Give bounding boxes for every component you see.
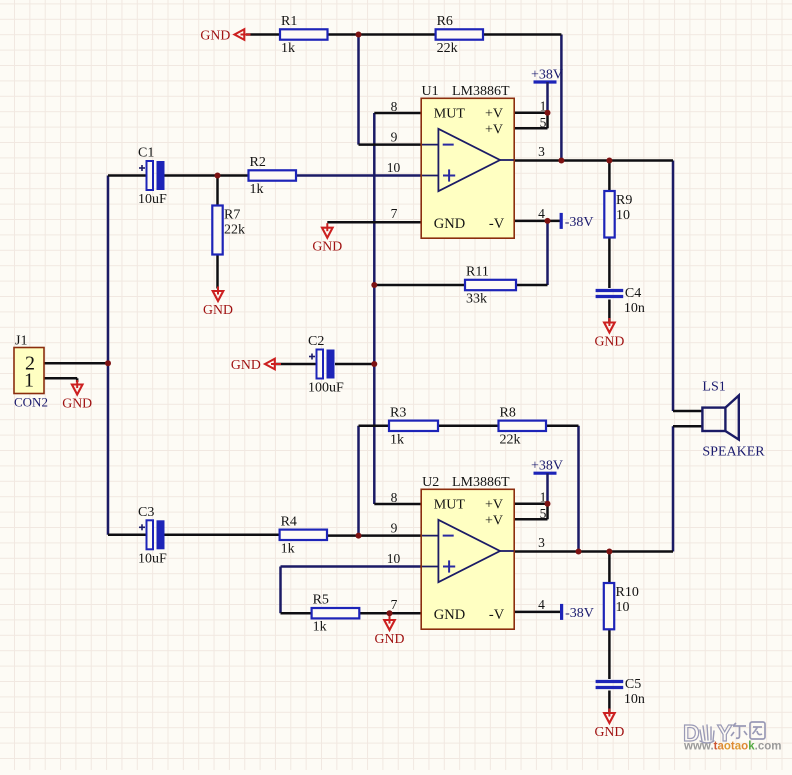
svg-text:10n: 10n [624, 692, 645, 707]
svg-text:5: 5 [540, 506, 547, 521]
svg-text:R1: R1 [281, 14, 297, 29]
svg-text:10uF: 10uF [138, 192, 167, 207]
svg-text:GND: GND [203, 302, 233, 317]
svg-text:7: 7 [391, 597, 398, 612]
svg-text:10: 10 [616, 600, 630, 615]
svg-text:4: 4 [538, 206, 545, 221]
svg-text:9: 9 [391, 130, 398, 145]
svg-text:R7: R7 [224, 208, 240, 223]
svg-text:LS1: LS1 [702, 380, 725, 395]
svg-text:7: 7 [391, 206, 398, 221]
svg-text:+V: +V [485, 498, 503, 513]
svg-text:www.taotaok.com: www.taotaok.com [683, 741, 781, 753]
svg-text:R5: R5 [313, 593, 329, 608]
svg-text:10n: 10n [624, 301, 645, 316]
svg-text:1k: 1k [281, 541, 295, 556]
svg-text:GND: GND [434, 607, 465, 623]
svg-text:5: 5 [540, 115, 547, 130]
svg-text:8: 8 [391, 490, 398, 505]
svg-text:C4: C4 [625, 286, 641, 301]
svg-text:10: 10 [616, 208, 630, 223]
svg-text:+V: +V [485, 107, 503, 122]
svg-text:-38V: -38V [565, 215, 594, 230]
svg-text:-V: -V [489, 607, 505, 623]
svg-text:MUT: MUT [434, 107, 466, 122]
svg-text:1k: 1k [313, 620, 327, 635]
svg-text:4: 4 [538, 597, 545, 612]
svg-text:C2: C2 [308, 334, 324, 349]
svg-text:C1: C1 [138, 146, 154, 161]
svg-text:R9: R9 [616, 193, 632, 208]
svg-text:R10: R10 [616, 585, 639, 600]
svg-text:33k: 33k [466, 292, 487, 307]
svg-text:GND: GND [231, 357, 261, 372]
svg-text:GND: GND [200, 27, 230, 42]
svg-text:1: 1 [24, 370, 34, 392]
svg-text:SPEAKER: SPEAKER [702, 445, 765, 460]
svg-text:CON2: CON2 [14, 395, 48, 410]
svg-text:U2: U2 [422, 475, 439, 490]
svg-text:10: 10 [387, 551, 401, 566]
svg-text:1k: 1k [250, 182, 264, 197]
svg-text:R3: R3 [390, 405, 406, 420]
svg-text:GND: GND [594, 724, 624, 739]
svg-text:8: 8 [391, 99, 398, 114]
svg-text:+38V: +38V [531, 459, 563, 474]
svg-text:R8: R8 [500, 405, 516, 420]
svg-text:GND: GND [375, 631, 405, 646]
svg-text:R4: R4 [281, 514, 297, 529]
svg-text:10: 10 [387, 160, 401, 175]
svg-text:R2: R2 [250, 155, 266, 170]
svg-text:C5: C5 [625, 677, 641, 692]
svg-text:MUT: MUT [434, 498, 466, 513]
svg-text:+V: +V [485, 122, 503, 137]
svg-text:LM3886T: LM3886T [452, 475, 510, 490]
svg-text:1k: 1k [281, 41, 295, 56]
svg-text:GND: GND [594, 333, 624, 348]
svg-text:3: 3 [538, 535, 545, 550]
svg-text:-V: -V [489, 216, 505, 232]
svg-text:22k: 22k [500, 432, 521, 447]
svg-text:GND: GND [312, 239, 342, 254]
svg-text:-38V: -38V [565, 606, 594, 621]
svg-text:3: 3 [538, 144, 545, 159]
svg-text:R6: R6 [437, 14, 453, 29]
svg-text:U1: U1 [422, 84, 439, 99]
svg-text:9: 9 [391, 521, 398, 536]
svg-text:LM3886T: LM3886T [452, 84, 510, 99]
svg-text:1k: 1k [390, 432, 404, 447]
svg-text:100uF: 100uF [308, 381, 344, 396]
svg-text:C3: C3 [138, 505, 154, 520]
svg-text:+V: +V [485, 513, 503, 528]
svg-text:GND: GND [434, 216, 465, 232]
svg-text:R11: R11 [466, 265, 489, 280]
svg-text:22k: 22k [437, 41, 458, 56]
svg-text:10uF: 10uF [138, 551, 167, 566]
svg-text:22k: 22k [224, 223, 245, 238]
svg-text:+38V: +38V [531, 68, 563, 83]
svg-text:GND: GND [62, 395, 92, 410]
svg-text:J1: J1 [15, 334, 27, 349]
